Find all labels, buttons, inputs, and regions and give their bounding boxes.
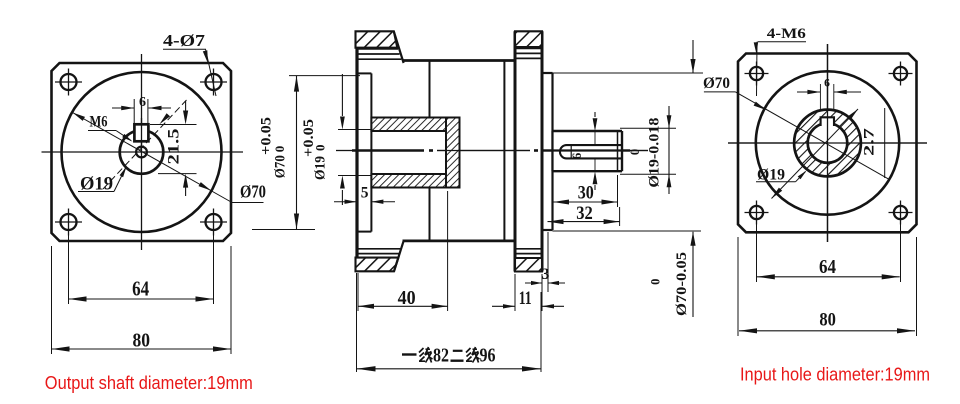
svg-text:Ø70-0.05: Ø70-0.05 xyxy=(674,252,690,316)
svg-text:4-M6: 4-M6 xyxy=(767,26,807,42)
right view bore circle O19 xyxy=(808,123,848,163)
right view hub keyway notch xyxy=(821,117,834,126)
centerline through bore end wall xyxy=(437,150,530,152)
dimension 3 boss protrusion xyxy=(547,232,549,292)
dimension 32 (output shaft) xyxy=(619,207,621,226)
svg-text:0: 0 xyxy=(313,144,328,151)
svg-text:82: 82 xyxy=(433,346,449,367)
svg-text:64: 64 xyxy=(819,256,836,278)
svg-text:0: 0 xyxy=(628,149,642,155)
extension lines of O70-0.05 xyxy=(553,72,704,74)
svg-text:Ø70: Ø70 xyxy=(703,75,730,92)
right view corner hole top-left (M6) xyxy=(750,67,763,80)
svg-text:Ø19: Ø19 xyxy=(313,156,329,180)
input bore end wall (hatched) xyxy=(446,118,460,188)
left view corner hole top-right xyxy=(206,74,222,90)
left view center pilot hole xyxy=(136,147,147,158)
O70 pilot recess in input flange xyxy=(357,72,372,74)
svg-text:Output shaft diameter:19mm: Output shaft diameter:19mm xyxy=(45,372,253,393)
right view hub outer circle (hatched ring) xyxy=(794,110,861,177)
svg-text:21.5: 21.5 xyxy=(166,128,183,164)
svg-text:3: 3 xyxy=(542,266,550,283)
dimension 64 hole spacing (right view) xyxy=(756,221,758,282)
dimension 21.5 keyway depth (left view) xyxy=(150,124,197,126)
input bore tube upper wall (hatched) xyxy=(371,118,446,132)
dimension O70-0.05 rear boss diameter xyxy=(692,40,694,73)
right view vertical centerline xyxy=(827,44,829,242)
left view corner hole bottom-left xyxy=(61,214,77,230)
dimension 80 flange width (left view) xyxy=(51,246,53,354)
svg-text:64: 64 xyxy=(132,277,149,301)
right view: input-side square flange plate xyxy=(738,54,917,233)
output shaft xyxy=(553,131,623,171)
svg-text:0: 0 xyxy=(272,146,287,153)
input flange bottom block (hatched) xyxy=(356,258,399,272)
dimension 11 output flange thickness xyxy=(514,274,516,311)
svg-text:Ø19-0.018: Ø19-0.018 xyxy=(647,118,663,188)
svg-text:Ø70: Ø70 xyxy=(240,182,266,202)
dimension 30 (output shaft) xyxy=(552,175,554,207)
left view shaft hole O19 xyxy=(120,130,164,174)
left view corner hole top-left xyxy=(61,74,77,90)
middle view internal wall (first stage) xyxy=(429,61,431,118)
overall length text: yi ji 82 er ji 96 xyxy=(402,347,480,363)
right view corner hole bottom-left (M6) xyxy=(750,206,763,219)
dimension 2.7 keyway depth (right view) xyxy=(772,109,859,199)
svg-text:6: 6 xyxy=(139,95,146,110)
output flange bottom block (hatched) xyxy=(515,258,542,272)
middle view internal wall (second stage joint) xyxy=(503,61,505,241)
dimension 64 hole spacing (left view) xyxy=(68,231,70,304)
svg-text:11: 11 xyxy=(519,288,532,309)
input flange top block (hatched) xyxy=(356,31,398,47)
right view pilot circle O70 xyxy=(756,71,899,214)
svg-text:80: 80 xyxy=(132,330,150,352)
svg-text:M6: M6 xyxy=(90,114,108,131)
svg-text:4-Ø7: 4-Ø7 xyxy=(163,31,205,50)
key slot width arrows xyxy=(594,112,596,117)
dimension 40 input bore depth xyxy=(357,273,359,311)
rear pilot boss O70 xyxy=(542,72,553,74)
left view corner hole bottom-right xyxy=(206,214,222,230)
svg-text:30: 30 xyxy=(578,183,594,204)
dimension 80 flange width (right view) xyxy=(737,237,739,336)
right view centerlines redraw xyxy=(728,142,927,144)
middle view horizontal centerline xyxy=(336,150,352,152)
right view horizontal centerline xyxy=(728,142,927,144)
left view bolt circle O70 xyxy=(62,72,222,232)
output flange plate (right) xyxy=(514,31,517,271)
right view corner hole bottom-right (M6) xyxy=(894,206,907,219)
svg-text:32: 32 xyxy=(576,203,593,224)
centerline through output shaft xyxy=(542,149,630,151)
left view horizontal centerline xyxy=(42,151,244,153)
left view vertical centerline xyxy=(141,54,143,250)
right view corner hole top-right (M6) xyxy=(894,67,907,80)
svg-text:96: 96 xyxy=(480,346,496,367)
svg-text:2.7: 2.7 xyxy=(862,127,878,156)
left view: output-side square flange plate xyxy=(52,63,232,241)
input flange plate left face xyxy=(355,31,358,271)
input bore tube lower wall (hatched) xyxy=(371,174,446,188)
svg-text:Ø70: Ø70 xyxy=(273,155,289,178)
overall length dimension: first stage 82, second stage 96 xyxy=(356,273,358,372)
svg-text:6: 6 xyxy=(569,152,584,159)
dimension O70+0.05 flange recess bore xyxy=(289,75,360,77)
svg-text:Ø19: Ø19 xyxy=(757,167,785,184)
svg-text:40: 40 xyxy=(398,287,416,309)
output shaft key slot xyxy=(560,145,622,158)
svg-text:0: 0 xyxy=(649,279,663,285)
output flange top block (hatched) xyxy=(515,31,542,47)
left view keyway box xyxy=(134,124,148,141)
dimension O19-0.018 output shaft diameter xyxy=(620,127,676,129)
svg-text:80: 80 xyxy=(819,309,836,330)
svg-text:Input hole diameter:19mm: Input hole diameter:19mm xyxy=(740,364,930,385)
svg-text:6: 6 xyxy=(824,78,830,90)
dimension O19+0.05 input bore xyxy=(338,129,372,131)
middle view housing outline xyxy=(403,59,516,62)
svg-text:5: 5 xyxy=(361,185,369,202)
